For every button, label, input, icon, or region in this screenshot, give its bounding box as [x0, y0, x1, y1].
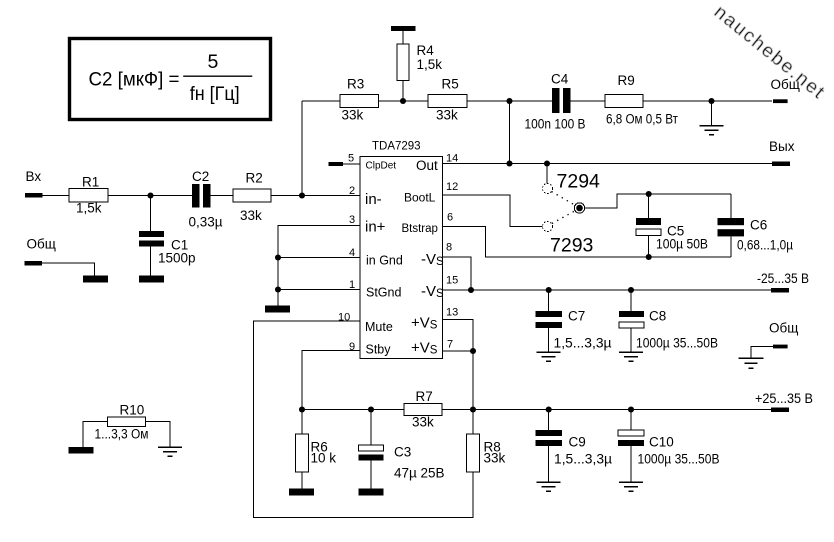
ground under R9: [711, 101, 713, 125]
wire Общ left: [42, 263, 95, 275]
svg-text:33k: 33k: [412, 415, 434, 430]
svg-text:33k: 33k: [342, 108, 364, 123]
node junction +Vs vertical: [470, 406, 476, 412]
switch common contact: [574, 203, 584, 213]
svg-text:7293: 7293: [550, 235, 593, 257]
wire pin15 -Vs rail: [443, 289, 772, 291]
svg-text:33k: 33k: [436, 108, 458, 123]
svg-text:1,5k: 1,5k: [76, 201, 102, 216]
wire pin6 Btstrap jog: [443, 227, 732, 258]
svg-text:R7: R7: [416, 389, 433, 404]
wire pin7: [443, 350, 474, 352]
switch contact 7293: [543, 222, 553, 232]
svg-text:15: 15: [446, 275, 458, 287]
wire switch common to caps: [585, 194, 731, 208]
svg-text:1,5...3,3µ: 1,5...3,3µ: [554, 336, 612, 351]
pin 5 stub: [329, 162, 344, 166]
ground under C9: [537, 482, 561, 491]
svg-text:8: 8: [446, 242, 452, 254]
ground under C7: [537, 352, 561, 361]
ground bar under R10: [69, 447, 94, 454]
svg-text:R1: R1: [82, 175, 99, 190]
wire feedback vertical: [509, 101, 511, 164]
svg-text:C7: C7: [568, 309, 585, 324]
svg-text:C10: C10: [649, 435, 674, 450]
wire top rail: [302, 100, 772, 102]
svg-text:Stby: Stby: [366, 343, 392, 357]
capacitor C8: [630, 290, 632, 352]
ground bar under C1: [139, 276, 164, 283]
svg-text:in+: in+: [365, 219, 386, 236]
wire switch dotted arms: [552, 192, 576, 224]
wire in Gnd / StGnd: [278, 226, 360, 306]
capacitor C10: [630, 410, 632, 482]
ground under Общ mid right: [739, 358, 764, 368]
node junction R6/Stby: [299, 406, 305, 412]
svg-text:StGnd: StGnd: [366, 286, 401, 300]
svg-text:C4: C4: [551, 72, 569, 87]
ground bar under R6: [289, 489, 314, 496]
wire Stby jog: [302, 351, 360, 410]
wire Out rail: [443, 163, 773, 165]
resistor R7: [404, 404, 442, 416]
svg-text:14: 14: [446, 153, 458, 165]
resistor R4: [391, 26, 416, 31]
svg-text:12: 12: [446, 181, 458, 193]
wire vertical R3 tap to top rail: [301, 101, 303, 196]
node -25V terminal: [771, 288, 789, 293]
node Общ left terminal: [25, 261, 43, 266]
svg-text:BootL: BootL: [404, 191, 436, 205]
svg-text:47µ 25В: 47µ 25В: [394, 466, 445, 481]
capacitor C3: [370, 410, 372, 489]
svg-text:Вых: Вых: [769, 139, 795, 154]
node junction pin1: [275, 286, 281, 292]
node junction R9/ground: [708, 98, 714, 104]
svg-text:R3: R3: [347, 77, 364, 92]
svg-text:Mute: Mute: [365, 320, 393, 334]
svg-text:10 k: 10 k: [311, 451, 337, 466]
wire pin8 jog: [443, 257, 472, 290]
switch contact 7294: [546, 164, 548, 184]
svg-text:Общ: Общ: [771, 77, 800, 92]
node Общ top right terminal: [773, 99, 788, 103]
svg-text:TDA7293: TDA7293: [372, 141, 421, 153]
svg-text:fн [Гц]: fн [Гц]: [190, 84, 240, 105]
svg-text:6: 6: [447, 212, 453, 224]
svg-text:1500p: 1500p: [158, 251, 196, 266]
resistor R10: [108, 417, 146, 427]
node junction pin8/rail: [468, 287, 474, 293]
formula box: [70, 39, 271, 120]
svg-text:C6: C6: [750, 218, 767, 233]
svg-text:in-: in-: [365, 191, 382, 208]
node junction pin4: [275, 254, 281, 260]
wire pin13 jog: [443, 320, 474, 410]
wire Общ mid right: [751, 346, 773, 358]
resistor R2: [233, 189, 271, 202]
svg-text:R10: R10: [120, 403, 145, 418]
ground IEC right of R10: [158, 447, 182, 456]
svg-text:7294: 7294: [557, 171, 601, 193]
ground bar under Общ left: [83, 276, 108, 283]
svg-text:C2 [мкФ] =: C2 [мкФ] =: [89, 70, 180, 91]
svg-text:7: 7: [447, 339, 453, 351]
node Общ mid right: [773, 345, 788, 349]
capacitor C9: [548, 410, 550, 482]
svg-text:5: 5: [208, 51, 219, 73]
capacitor C7: [548, 290, 550, 352]
node junction C9 tap: [546, 406, 552, 412]
svg-text:R2: R2: [246, 171, 263, 186]
svg-text:3: 3: [349, 214, 355, 226]
svg-text:Вх: Вх: [26, 169, 42, 184]
resistor R9: [605, 95, 643, 108]
svg-text:100n 100 В: 100n 100 В: [525, 117, 586, 132]
node +25V terminal: [771, 408, 789, 413]
svg-text:100µ 50В: 100µ 50В: [656, 237, 708, 252]
svg-text:13: 13: [446, 307, 458, 319]
svg-text:C8: C8: [649, 309, 666, 324]
svg-text:0,33µ: 0,33µ: [189, 215, 223, 230]
wire +Vs rail: [302, 409, 771, 411]
capacitor C5: [648, 194, 650, 257]
svg-text:R9: R9: [618, 73, 635, 88]
wire input row: [43, 195, 360, 197]
ground bar under C3: [359, 489, 384, 496]
resistor R1: [69, 189, 108, 203]
IC U1 TDA7293 box: [360, 157, 443, 359]
resistor R5: [428, 95, 467, 108]
svg-text:1...3,3 Ом: 1...3,3 Ом: [95, 427, 149, 442]
node junction pin7/13: [470, 348, 476, 354]
node junction C5 top: [646, 191, 652, 197]
svg-text:Btstrap: Btstrap: [402, 223, 438, 235]
node junction C1 tap: [147, 192, 153, 198]
node junction feedback tap: [506, 98, 512, 104]
ground bar under in Gnd: [265, 306, 290, 313]
node Вх terminal: [25, 193, 43, 198]
svg-text:1,5...3,3µ: 1,5...3,3µ: [554, 452, 612, 467]
svg-text:Общ: Общ: [769, 321, 798, 336]
svg-text:+25...35 В: +25...35 В: [755, 391, 813, 406]
node junction out/feedback: [506, 160, 512, 166]
svg-text:-25...35 В: -25...35 В: [757, 271, 809, 286]
resistor R6: [301, 410, 303, 489]
svg-text:1000µ 35...50В: 1000µ 35...50В: [636, 336, 718, 351]
capacitor C1: [150, 196, 152, 276]
svg-text:C9: C9: [569, 435, 586, 450]
capacitor C6: [730, 194, 732, 257]
svg-text:10: 10: [338, 312, 350, 324]
node junction C3 tap: [368, 406, 374, 412]
resistor R8: [472, 410, 474, 435]
node junction C5 bottom: [646, 254, 652, 260]
node junction R4/rail: [400, 98, 406, 104]
node junction C10 tap: [628, 406, 634, 412]
svg-text:ClpDet: ClpDet: [366, 161, 397, 172]
node junction R3 tap: [299, 192, 305, 198]
wire pin12 BootL jog: [443, 195, 543, 227]
svg-text:C2: C2: [192, 169, 209, 184]
svg-text:2: 2: [349, 185, 355, 197]
svg-text:Out: Out: [416, 158, 438, 173]
svg-text:C3: C3: [394, 445, 411, 460]
svg-text:5: 5: [348, 153, 354, 165]
svg-text:1000µ 35...50В: 1000µ 35...50В: [638, 452, 720, 467]
svg-text:6,8 Ом 0,5 Вт: 6,8 Ом 0,5 Вт: [606, 112, 678, 127]
watermark nauchebe.net: [710, 2, 830, 104]
wire R10 left: [83, 422, 108, 448]
svg-text:R5: R5: [442, 77, 459, 92]
svg-text:1,5k: 1,5k: [417, 57, 443, 72]
wire Mute loop: [254, 321, 474, 518]
svg-text:33k: 33k: [240, 208, 262, 223]
svg-text:in Gnd: in Gnd: [366, 254, 403, 268]
node Вых terminal: [772, 162, 790, 167]
svg-text:R4: R4: [417, 43, 435, 58]
ground under C10: [619, 482, 643, 491]
node junction out/switch: [544, 160, 550, 166]
capacitor C2: [192, 184, 200, 208]
svg-text:9: 9: [349, 341, 355, 353]
svg-text:0,68...1,0µ: 0,68...1,0µ: [737, 238, 793, 253]
svg-text:33k: 33k: [484, 451, 506, 466]
wire R10 right: [146, 422, 171, 448]
resistor R3: [340, 95, 379, 108]
svg-text:Общ: Общ: [27, 237, 56, 252]
capacitor C4: [552, 88, 560, 113]
ground under C8: [619, 352, 643, 361]
